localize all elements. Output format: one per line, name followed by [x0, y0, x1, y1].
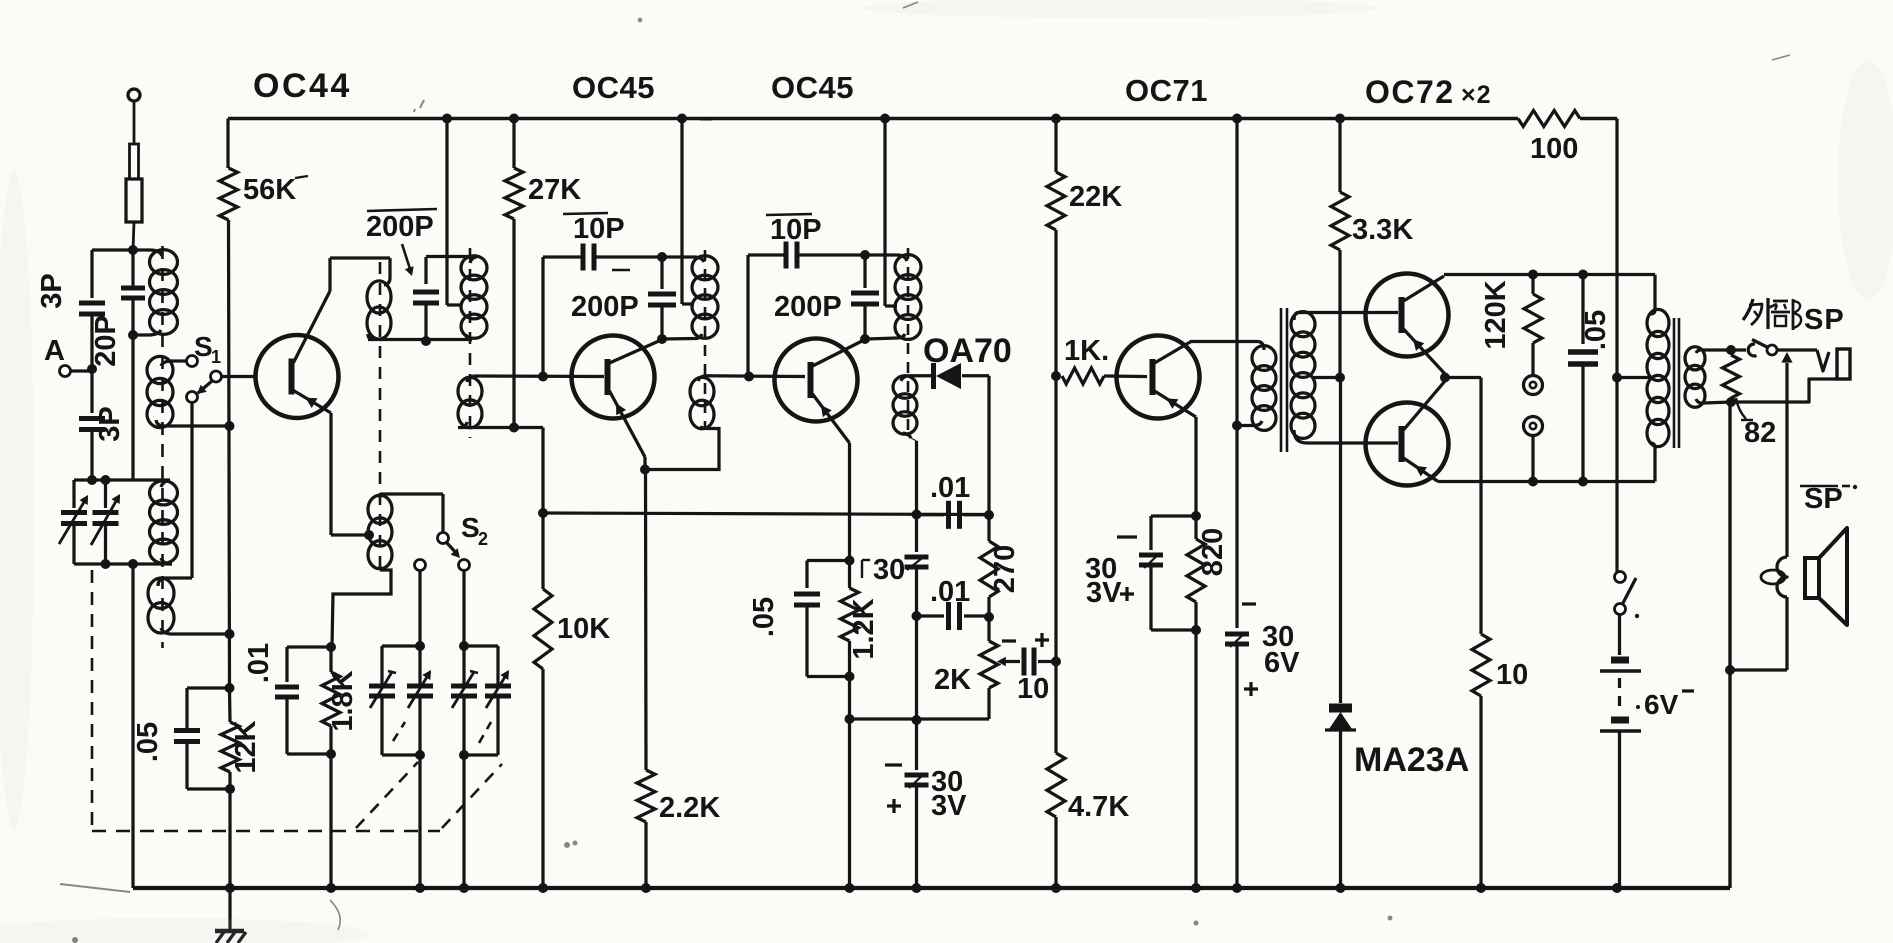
wire 12K to rail — [228, 789, 231, 888]
wire tap to MA23A — [1339, 378, 1342, 704]
wire output primary top leg — [1653, 275, 1656, 311]
wire rail left end down — [226, 119, 229, 169]
svg-text:10: 10 — [1017, 673, 1049, 705]
wire speaker return — [1785, 597, 1788, 670]
junction boxA top right — [415, 641, 425, 651]
wire S2 left wire — [418, 571, 421, 687]
junction T2 rail node — [415, 883, 425, 893]
junction speaker return node — [1725, 665, 1735, 675]
junction 200P osc bottom — [421, 336, 431, 346]
junction MA23A rail node — [1336, 883, 1346, 893]
svg-text:10: 10 — [1496, 659, 1528, 691]
wire IF1 feed from rail — [680, 119, 683, 305]
wire 22K top — [1054, 119, 1057, 173]
junction 2.2K rail node — [641, 883, 651, 893]
junction 917-01b node — [912, 611, 922, 621]
junction .05 out bottom node — [1578, 477, 1588, 487]
wire osc bus corner to 10K — [541, 428, 544, 590]
inductor S2 feed coil — [368, 495, 392, 523]
wire speaker feed — [1785, 402, 1788, 557]
svg-text:200P: 200P — [366, 211, 434, 243]
svg-text:SP: SP — [1804, 304, 1845, 336]
wire OC45b emitter lead — [848, 443, 851, 561]
inductor osc tank coil — [461, 256, 487, 280]
wire 30 3V second top bus — [1151, 514, 1196, 517]
junction det-AGC node — [984, 510, 994, 520]
resistor 1.2K — [848, 561, 851, 589]
junction gang bottom mid — [101, 559, 111, 569]
wire switch to battery — [1618, 615, 1621, 656]
capacitor .05 left — [185, 688, 188, 728]
inductor IF1 secondary — [690, 377, 714, 406]
wire OC45a emitter lead — [643, 457, 646, 470]
wire combo bottom bus — [287, 752, 331, 755]
junction coupling-56K node — [225, 421, 235, 431]
wire battery to rail — [1618, 731, 1621, 888]
speaker SP — [1805, 558, 1819, 598]
wire 917 mid — [915, 568, 918, 720]
mech link horizontal dashed — [92, 830, 440, 833]
wire IF1 primary bottom tail — [662, 337, 694, 341]
wire 56K to bottom — [229, 220, 230, 688]
svg-text:2K: 2K — [934, 664, 971, 696]
resistor 22K — [1047, 172, 1065, 230]
svg-text:6V: 6V — [1644, 689, 1679, 720]
inductor driver secondary — [1291, 312, 1315, 337]
ground symbol — [228, 888, 231, 930]
svg-text:12K: 12K — [230, 720, 262, 773]
junction vol-base node — [1051, 657, 1061, 667]
IF1 core dashed — [704, 250, 707, 430]
inductor IF2 primary — [895, 255, 921, 280]
wire OC45a base line — [474, 374, 604, 378]
mech link vertical dashed — [91, 570, 94, 831]
wire bottom rail left riser — [131, 564, 134, 888]
svg-text:OC45: OC45 — [572, 70, 655, 105]
junction combo top — [326, 642, 336, 652]
svg-text:S: S — [461, 512, 480, 543]
svg-text:27K: 27K — [528, 174, 581, 206]
wire IF2 primary bottom tail — [865, 338, 897, 339]
wire S2 coil top link — [380, 492, 443, 495]
wire IF2 secondary to OA70 — [909, 374, 934, 377]
svg-text:1: 1 — [211, 347, 221, 367]
inductor antenna coil L1 — [150, 250, 178, 275]
wire OC71 collector line — [1190, 340, 1258, 343]
resistor 4.7K — [1054, 748, 1057, 753]
capacitor .05 output — [1581, 275, 1584, 345]
svg-text:6V: 6V — [1264, 647, 1300, 679]
junction 1237 bottom rail node — [1232, 883, 1242, 893]
wire 3.3K to tap — [1338, 250, 1341, 378]
svg-text:OC45: OC45 — [771, 70, 854, 105]
capacitor 3P lower — [79, 416, 105, 421]
wire 2K bottom to 917 — [850, 717, 989, 720]
wire S1 lower contact down — [190, 403, 193, 579]
wire 3.3K top — [1338, 119, 1341, 193]
wire combo top bus — [287, 645, 331, 648]
wire bottom rail — [133, 886, 1730, 890]
switch S1 — [187, 356, 198, 367]
junction osc secondary-27K node — [509, 423, 519, 433]
inductor osc secondary — [458, 377, 482, 405]
svg-text:A: A — [44, 335, 65, 367]
junction A node — [87, 364, 97, 374]
junction OC71 emitter node — [1191, 511, 1201, 521]
wire driver primary bottom tail — [1237, 424, 1253, 427]
wire pushpull to 10ohm — [1445, 376, 1481, 379]
junction 27K rail node — [509, 114, 519, 124]
junction boxB bottom left — [459, 750, 469, 760]
svg-text:.01: .01 — [930, 576, 970, 608]
junction 12K bottom node — [225, 784, 235, 794]
capacitor 3P upper — [79, 301, 105, 306]
inductor band coil — [148, 578, 174, 608]
wire gang bottom bus — [74, 562, 172, 565]
svg-text:.05: .05 — [1580, 310, 1612, 350]
wire rail right drop to switch — [1615, 119, 1618, 578]
transistor OC71 — [1117, 336, 1200, 419]
svg-text:200P: 200P — [571, 291, 639, 323]
wire 3P column upper — [90, 250, 93, 298]
svg-text:22K: 22K — [1069, 181, 1122, 213]
junction 820 rail node — [1191, 883, 1201, 893]
junction 82 top node — [1726, 345, 1736, 355]
wire OC72a collector line — [1444, 273, 1655, 276]
wire IF1 secondary top to OC45b base — [706, 374, 805, 378]
wire top supply rail — [228, 117, 1518, 121]
svg-text:20P: 20P — [90, 315, 122, 367]
svg-text:1.8K: 1.8K — [327, 670, 359, 731]
junction IF1 feed rail node — [677, 114, 687, 124]
wire 1K to OC71 base — [1104, 374, 1147, 378]
svg-text:2: 2 — [478, 529, 488, 549]
inductor driver primary — [1252, 346, 1276, 371]
junction 56K-05 node — [225, 683, 235, 693]
junction center tap node — [1612, 373, 1622, 383]
wire secondary top to jack — [1704, 348, 1746, 351]
resistor 27K — [505, 168, 523, 219]
junction OC45a emitter node — [640, 465, 650, 475]
resistor 820 — [1187, 539, 1205, 602]
wire osc tank bottom — [368, 338, 472, 341]
capacitor .05 second — [805, 561, 808, 589]
capacitor 30 3V second — [1149, 516, 1152, 550]
trimmer capacitor T4 — [496, 646, 499, 686]
svg-text:10P: 10P — [770, 214, 822, 246]
junction 12K rail node — [225, 883, 235, 893]
wire trimmer boxB top — [464, 644, 498, 647]
inductor IF1 primary — [692, 256, 718, 280]
kanji label gaibu — [1743, 299, 1753, 320]
junction IF2 feed rail node — [880, 114, 890, 124]
junction IF1 bottom node — [657, 334, 667, 344]
resistor 12K — [228, 688, 232, 722]
junction 270-2K node — [984, 612, 994, 622]
ferrite core osc dashed — [469, 248, 472, 438]
junction gang top mid — [101, 475, 111, 485]
wire trimmer boxA top — [382, 644, 420, 647]
svg-text:×2: ×2 — [1461, 81, 1492, 109]
capacitor 10 electrolytic — [1008, 660, 1020, 663]
svg-text:3P: 3P — [94, 406, 126, 441]
junction 05b top node — [845, 556, 855, 566]
wire 2.2K to rail — [644, 822, 647, 888]
wire trimmer boxA bottom — [382, 753, 420, 756]
junction 1237 rail node — [1232, 114, 1242, 124]
inductor output primary — [1647, 309, 1669, 336]
capacitor 30 3V first — [915, 720, 918, 770]
wire S2 coil bottom path — [332, 570, 391, 647]
ferrite rod core — [161, 246, 164, 648]
wire IF1 primary top tail — [662, 255, 694, 258]
wire coupling coil bottom to 56K line — [160, 424, 230, 427]
wire 1237 column lower — [1235, 645, 1238, 888]
svg-text:3.3K: 3.3K — [1352, 214, 1413, 246]
junction 120K top node — [1528, 270, 1538, 280]
junction boxA bottom right — [415, 750, 425, 760]
junction 4.7K rail node — [1051, 883, 1061, 893]
junction 820 bottom node — [1191, 625, 1201, 635]
wire gang top bus — [74, 478, 170, 481]
transistor OC72 lower — [1366, 403, 1449, 486]
wire 10P2 left leg — [746, 255, 749, 377]
junction 1K node — [1051, 371, 1061, 381]
junction IF2 bottom node — [860, 334, 870, 344]
mech link dash stub T4 — [479, 722, 491, 743]
wire 3P lower to gang — [90, 429, 93, 480]
wire OC44 collector lead — [328, 258, 331, 291]
wire emitter to 2.2K — [644, 470, 648, 771]
resistor 3.3K — [1331, 192, 1349, 250]
junction antenna node — [128, 245, 138, 255]
wire driver sec tap to 3.3K — [1313, 376, 1340, 379]
junction combo bottom — [326, 749, 336, 759]
transistor OC45 second — [775, 339, 858, 422]
wire IF2 secondary bottom leg — [911, 438, 917, 441]
inductor antenna coupling coil — [147, 356, 173, 383]
transistor OC44 — [256, 335, 339, 418]
junction boxB top left — [459, 641, 469, 651]
junction gang top left — [87, 475, 97, 485]
svg-text:3P: 3P — [36, 273, 68, 308]
potentiometer 2K — [987, 617, 990, 641]
svg-text:120K: 120K — [1480, 280, 1512, 349]
wire MA23A to rail — [1339, 730, 1342, 888]
junction 10K rail node — [538, 883, 548, 893]
wire IF2 feed from rail — [883, 119, 886, 307]
svg-text:OC72: OC72 — [1365, 74, 1455, 110]
inductor output secondary — [1685, 347, 1705, 370]
svg-text:SP: SP — [1804, 483, 1843, 515]
battery 6V — [1611, 657, 1629, 664]
junction IF2 top node — [860, 250, 870, 260]
junction osc tap rail node — [442, 114, 452, 124]
wire 82 line to rail — [1728, 402, 1731, 888]
diode OA70 — [936, 363, 961, 389]
junction T3 rail node — [459, 883, 469, 893]
speaker voice coil — [1777, 557, 1787, 597]
wire 3P to A node — [90, 314, 93, 413]
junction base2-10P node — [744, 372, 754, 382]
wire S1 to base — [221, 375, 256, 378]
wire 27K top — [512, 119, 515, 169]
capacitor .01 third — [917, 614, 945, 617]
junction 917-AGC node — [912, 510, 922, 520]
junction 1.2K-719 node — [845, 714, 855, 724]
svg-text:OC71: OC71 — [1125, 73, 1208, 108]
junction 82 bottom node — [1726, 397, 1736, 407]
transistor OC72 upper — [1366, 274, 1449, 357]
wire trimmer boxB bottom — [464, 753, 498, 756]
plug symbol ext SP — [1817, 350, 1829, 371]
IF2 core dashed — [907, 248, 910, 436]
inductor IF2 secondary — [893, 376, 917, 398]
svg-text:S: S — [194, 331, 213, 362]
variable capacitor gang section 2 — [104, 480, 107, 508]
capacitor .01 first — [285, 647, 288, 682]
wire osc secondary bottom bus — [458, 426, 543, 429]
svg-text:10K: 10K — [557, 613, 610, 645]
resistor 1K — [1062, 368, 1104, 384]
wire OA70 to detector column — [962, 374, 989, 377]
mech link dash stub T2 — [393, 722, 405, 741]
wire 20P column — [131, 250, 134, 288]
resistor 120K — [1531, 275, 1534, 295]
wire 1.8K to rail — [329, 754, 332, 888]
svg-text:10P: 10P — [573, 213, 625, 245]
junction IF1 top node — [657, 252, 667, 262]
wire .05 bottom link — [187, 787, 230, 790]
svg-text:2.2K: 2.2K — [659, 792, 720, 824]
wire secondary bottom to 82 — [1704, 402, 1731, 403]
svg-text:3V: 3V — [1086, 577, 1122, 609]
junction 1.8K rail node — [326, 883, 336, 893]
plug insert arrow — [1785, 363, 1788, 402]
wire output primary bottom leg — [1653, 448, 1656, 482]
junction 22K rail node — [1051, 114, 1061, 124]
wire 1.2K to rail — [848, 663, 851, 888]
capacitor 20P — [121, 286, 145, 291]
jack terminal lower — [1524, 417, 1543, 436]
svg-text:1K.: 1K. — [1064, 335, 1109, 367]
junction tap-3.3K node — [1335, 373, 1345, 383]
inductor osc primary — [367, 281, 391, 313]
svg-text:MA23A: MA23A — [1354, 741, 1469, 779]
ferrite core osc primary dashed — [379, 262, 382, 572]
junction 20P lower node — [128, 330, 138, 340]
wire 22K col to 4.7K — [1054, 662, 1057, 749]
svg-text:OA70: OA70 — [923, 332, 1012, 370]
wire 10P top right — [596, 255, 662, 258]
junction 1.2K rail node — [845, 883, 855, 893]
junction gang bottom right — [128, 559, 138, 569]
resistor 100 on rail — [1518, 111, 1580, 127]
wire osc tank top — [426, 255, 477, 258]
trimmer capacitor T2 — [407, 684, 433, 689]
wire 820 bottom bus — [1151, 628, 1196, 631]
wire osc tap from rail — [445, 119, 448, 306]
wire 10K to rail — [541, 669, 544, 888]
svg-text:OC44: OC44 — [253, 67, 352, 105]
wire 4.7K to rail — [1054, 822, 1057, 888]
resistor 10K — [534, 589, 552, 669]
capacitor 30 6V — [1225, 632, 1249, 637]
wire IF2 primary top tail — [865, 253, 897, 256]
capacitor .01 second — [917, 513, 945, 516]
capacitor 200P IF2 — [863, 255, 866, 288]
svg-text:3V: 3V — [931, 790, 967, 822]
resistor 1.8K — [329, 647, 332, 672]
variable capacitor gang section 1 — [72, 480, 75, 508]
svg-text:30: 30 — [873, 554, 905, 586]
wire .05 top link — [187, 686, 230, 689]
wire jack lower to bus — [1531, 436, 1534, 482]
junction 05b bottom node — [845, 672, 855, 682]
wire AGC line — [543, 513, 989, 515]
junction pushpull node — [1440, 373, 1450, 383]
transformer core output — [1673, 318, 1676, 448]
svg-text:.01: .01 — [243, 643, 275, 683]
junction 917-2K node — [912, 715, 922, 725]
wire 10P2 top right — [799, 253, 865, 256]
junction base-10P node — [538, 372, 548, 382]
junction driver-30uF node — [1232, 421, 1242, 431]
wire output bottom bus — [1438, 480, 1655, 483]
wire 05b top bus — [807, 559, 850, 562]
wire 10ohm to rail — [1479, 696, 1482, 888]
wire driver sec top to OC72a base — [1298, 311, 1398, 314]
resistor 82 — [1723, 355, 1740, 398]
junction AGC left node — [538, 508, 548, 518]
wiper arrow 2K — [1001, 660, 1008, 663]
capacitor 30 IF bypass — [905, 555, 929, 560]
wire 820 to rail — [1194, 630, 1197, 888]
diode MA23A — [1329, 704, 1352, 713]
wire IF1 secondary bottom path — [645, 429, 719, 470]
svg-text:4.7K: 4.7K — [1068, 791, 1129, 823]
capacitor 10P second — [784, 242, 789, 269]
junction band coil node — [225, 629, 235, 639]
svg-text:200P: 200P — [774, 291, 842, 323]
svg-text:100: 100 — [1530, 133, 1578, 165]
junction 3.3K rail node — [1335, 114, 1345, 124]
svg-text:270: 270 — [989, 545, 1021, 593]
jack terminal upper — [1524, 376, 1543, 395]
resistor 270 — [987, 515, 990, 541]
resistor 56K — [220, 168, 238, 220]
antenna mast — [128, 89, 140, 101]
wire 10P top left — [543, 255, 581, 258]
svg-text:1.2K: 1.2K — [848, 598, 880, 659]
wire 1237 column upper — [1235, 119, 1238, 629]
inductor tuning coil L2 — [150, 481, 178, 505]
wire 27K to osc bus — [512, 219, 515, 428]
wire 10P2 top left — [748, 253, 784, 256]
switch S2 — [438, 533, 449, 544]
junction 120K bottom node — [1528, 477, 1538, 487]
capacitor 10P first — [581, 244, 586, 271]
resistor 10 ohm — [1472, 634, 1490, 696]
svg-text:56K: 56K — [243, 174, 296, 206]
wire 05b bottom bus — [807, 675, 850, 678]
wire antenna to 3P branch — [92, 248, 133, 251]
trimmer capacitor T3 — [451, 684, 477, 689]
junction 917 rail node — [912, 883, 922, 893]
capacitor 200P IF1 — [660, 257, 663, 289]
resistor 2.2K — [637, 770, 655, 822]
junction battery rail node — [1612, 883, 1622, 893]
